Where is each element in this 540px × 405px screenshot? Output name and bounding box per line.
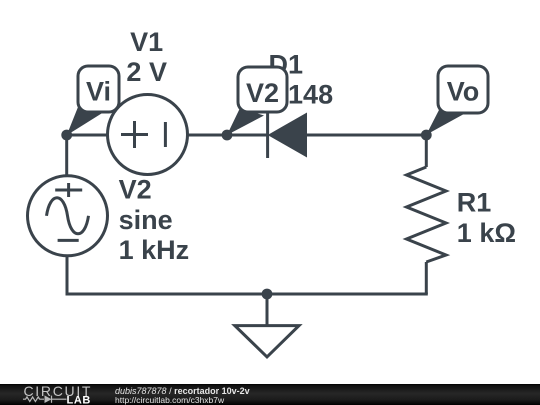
sine source V2	[28, 176, 108, 256]
label D1	[239, 49, 334, 109]
V2 minus symbol	[58, 239, 79, 242]
wire V1 right terminal to D1 cathode	[188, 134, 268, 137]
voltage source V1	[108, 95, 188, 175]
footer url line	[115, 395, 224, 405]
net flag Vo box	[438, 66, 488, 113]
svg-text:LAB: LAB	[67, 395, 91, 405]
wire node Vo down to R1 top	[425, 135, 428, 167]
wire bottom rail	[66, 293, 428, 296]
net flag V2 box	[238, 67, 287, 112]
diode D1	[268, 113, 307, 158]
svg-text:2 V: 2 V	[126, 57, 167, 87]
svg-text:Vi: Vi	[86, 77, 111, 107]
svg-text:V2: V2	[119, 174, 152, 204]
svg-text:Vo: Vo	[447, 77, 480, 107]
net flag Vo	[426, 66, 488, 135]
net flag Vi box	[78, 66, 119, 112]
node ground junction	[262, 289, 273, 300]
label V2	[119, 174, 190, 265]
D1 triangle	[269, 113, 307, 156]
wire V2 bottom terminal to bottom rail	[66, 256, 69, 294]
svg-text:1 kΩ: 1 kΩ	[457, 218, 516, 248]
wire R1 bottom to bottom rail	[425, 262, 428, 294]
ground triangle	[235, 326, 299, 357]
svg-text:sine: sine	[119, 205, 173, 235]
ground	[235, 294, 299, 357]
resistor R1	[407, 167, 447, 262]
wire D1 anode to node Vo	[305, 134, 426, 137]
V1 minus terminal bar	[164, 122, 167, 147]
net flag V2	[227, 67, 287, 135]
net flag Vi pointer	[67, 105, 102, 136]
label V1	[126, 27, 167, 87]
V1 plus symbol	[121, 133, 148, 136]
net flag Vo pointer	[426, 108, 463, 135]
node Vo junction	[421, 130, 432, 141]
wire node Vi to V1 left terminal	[67, 134, 108, 137]
wire node Vi down to V2 top terminal	[65, 135, 68, 176]
svg-text:1 kHz: 1 kHz	[119, 235, 190, 265]
svg-text:V2: V2	[246, 78, 279, 108]
footer credit line	[115, 386, 250, 396]
V2 sine wave	[47, 198, 89, 234]
svg-text:R1: R1	[457, 188, 492, 218]
ground stem wire	[266, 294, 269, 326]
V2 plus symbol	[55, 189, 82, 192]
svg-text:V1: V1	[130, 27, 163, 57]
D1 cathode bar	[266, 113, 269, 158]
node D1 anode junction	[222, 130, 233, 141]
net flag Vi	[67, 66, 119, 135]
net flag V2 pointer	[227, 108, 264, 135]
CircuitLab logo	[0, 384, 120, 405]
label R1	[457, 188, 516, 249]
node Vi junction	[61, 130, 72, 141]
